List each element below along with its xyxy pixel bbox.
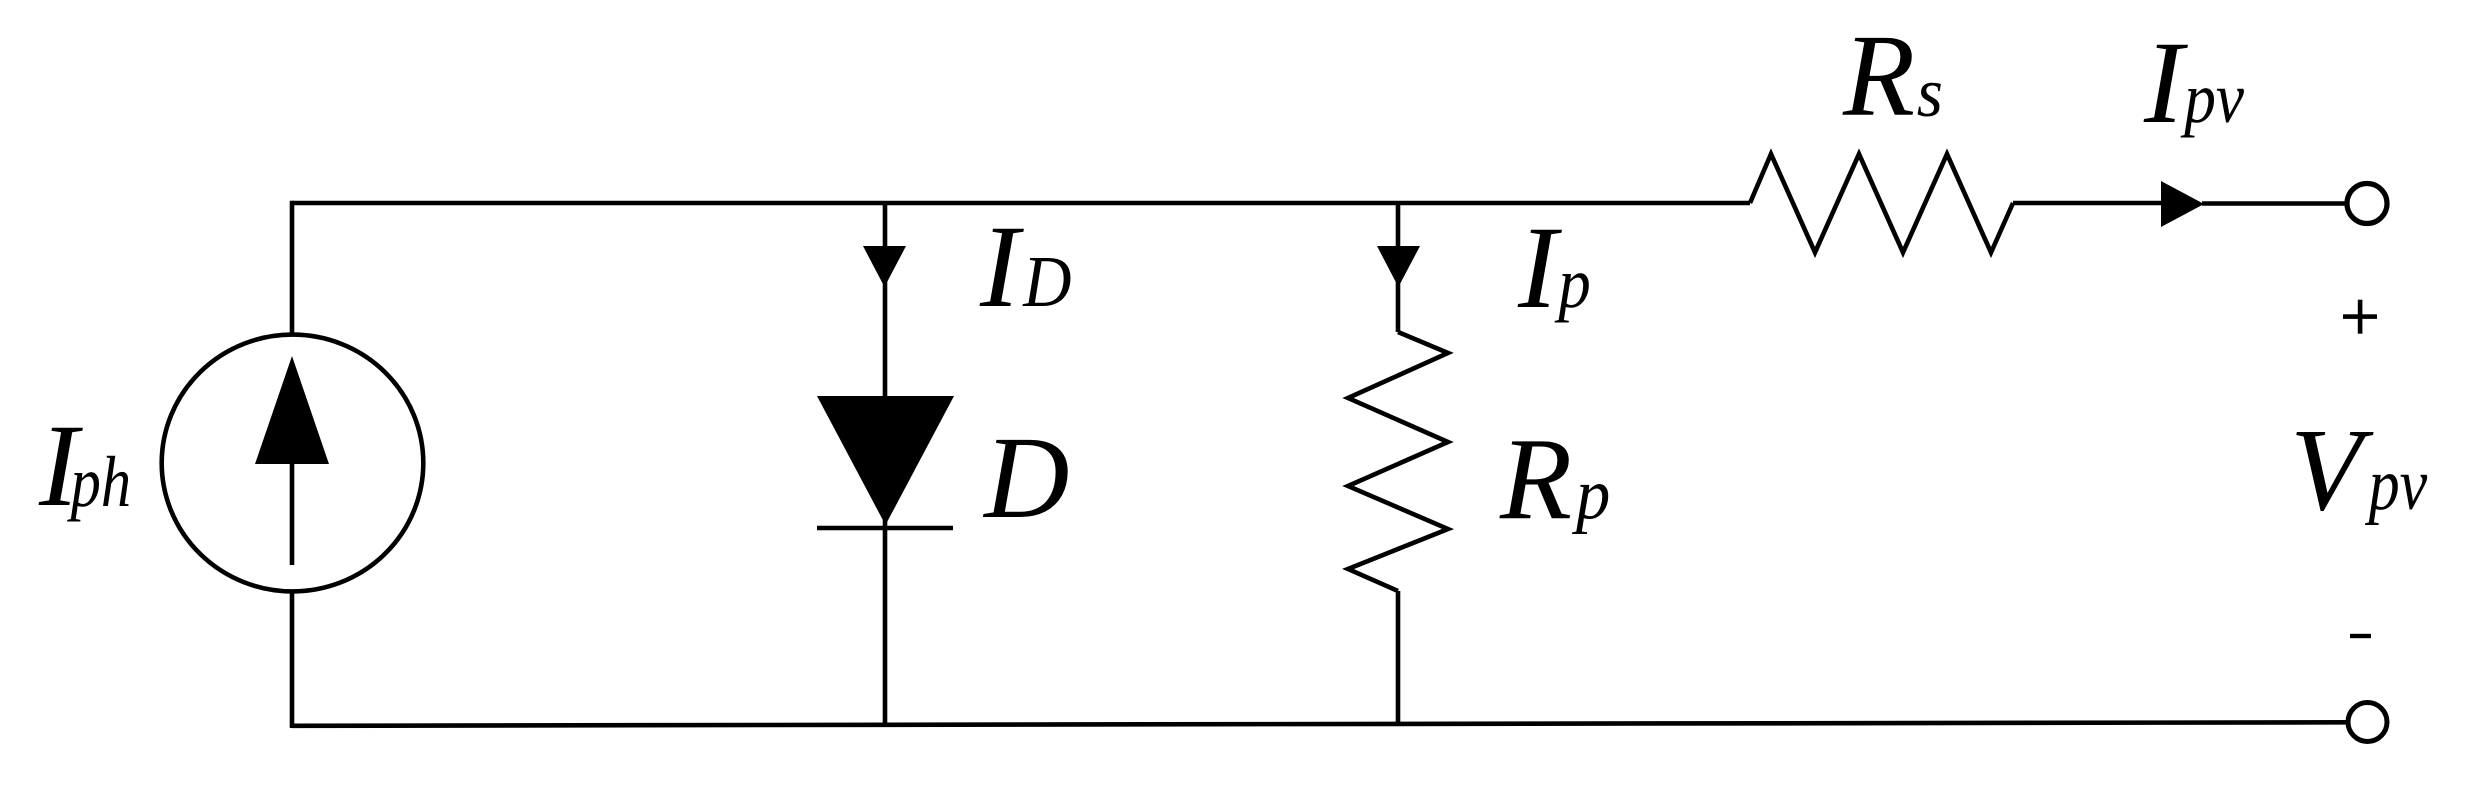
- svg-text:D: D: [982, 412, 1069, 543]
- svg-text:pv: pv: [2180, 58, 2244, 138]
- label Rp: [1499, 414, 1610, 545]
- resistor Rs zigzag: [1750, 154, 2013, 253]
- current source Iph circle: [162, 335, 424, 592]
- label Ip: [1517, 202, 1591, 333]
- wire top rail: [292, 201, 1750, 206]
- svg-text:ph: ph: [67, 443, 131, 522]
- current arrow Ipv: [2161, 181, 2204, 227]
- current source arrow: [255, 356, 329, 565]
- wire left vertical upper: [290, 201, 295, 333]
- resistor Rp zigzag: [1348, 332, 1448, 591]
- svg-text:V: V: [2290, 404, 2374, 535]
- wire Rp branch upper: [1396, 203, 1401, 332]
- minus sign: [2350, 634, 2371, 638]
- current arrow ID: [863, 246, 906, 287]
- svg-text:R: R: [1499, 414, 1572, 545]
- svg-text:D: D: [1022, 242, 1071, 322]
- plus sign: [2343, 300, 2377, 334]
- svg-text:I: I: [979, 201, 1024, 332]
- terminal node -: [2348, 703, 2387, 742]
- label ID: [979, 201, 1071, 332]
- current arrow Ip: [1377, 246, 1420, 287]
- wire left vertical lower: [290, 593, 295, 728]
- svg-text:s: s: [1917, 54, 1943, 132]
- svg-text:p: p: [1554, 243, 1591, 323]
- label Rs: [1842, 10, 1943, 141]
- terminal node +: [2347, 184, 2387, 224]
- svg-text:pv: pv: [2365, 443, 2428, 525]
- diode D cathode bar: [817, 526, 953, 531]
- svg-text:R: R: [1842, 10, 1915, 141]
- svg-text:p: p: [1571, 455, 1610, 535]
- diode D triangle: [817, 396, 954, 525]
- wire diode branch: [883, 203, 888, 726]
- svg-text:I: I: [2143, 17, 2188, 148]
- label Ipv: [2143, 17, 2245, 148]
- wire Rp branch lower: [1396, 591, 1401, 725]
- label Vpv: [2290, 404, 2428, 535]
- svg-text:I: I: [1517, 202, 1562, 333]
- wire bottom rail: [292, 722, 2348, 726]
- wire arrow to terminal: [2202, 201, 2347, 206]
- label Iph: [38, 400, 131, 531]
- wire Rs to arrow: [2013, 201, 2163, 206]
